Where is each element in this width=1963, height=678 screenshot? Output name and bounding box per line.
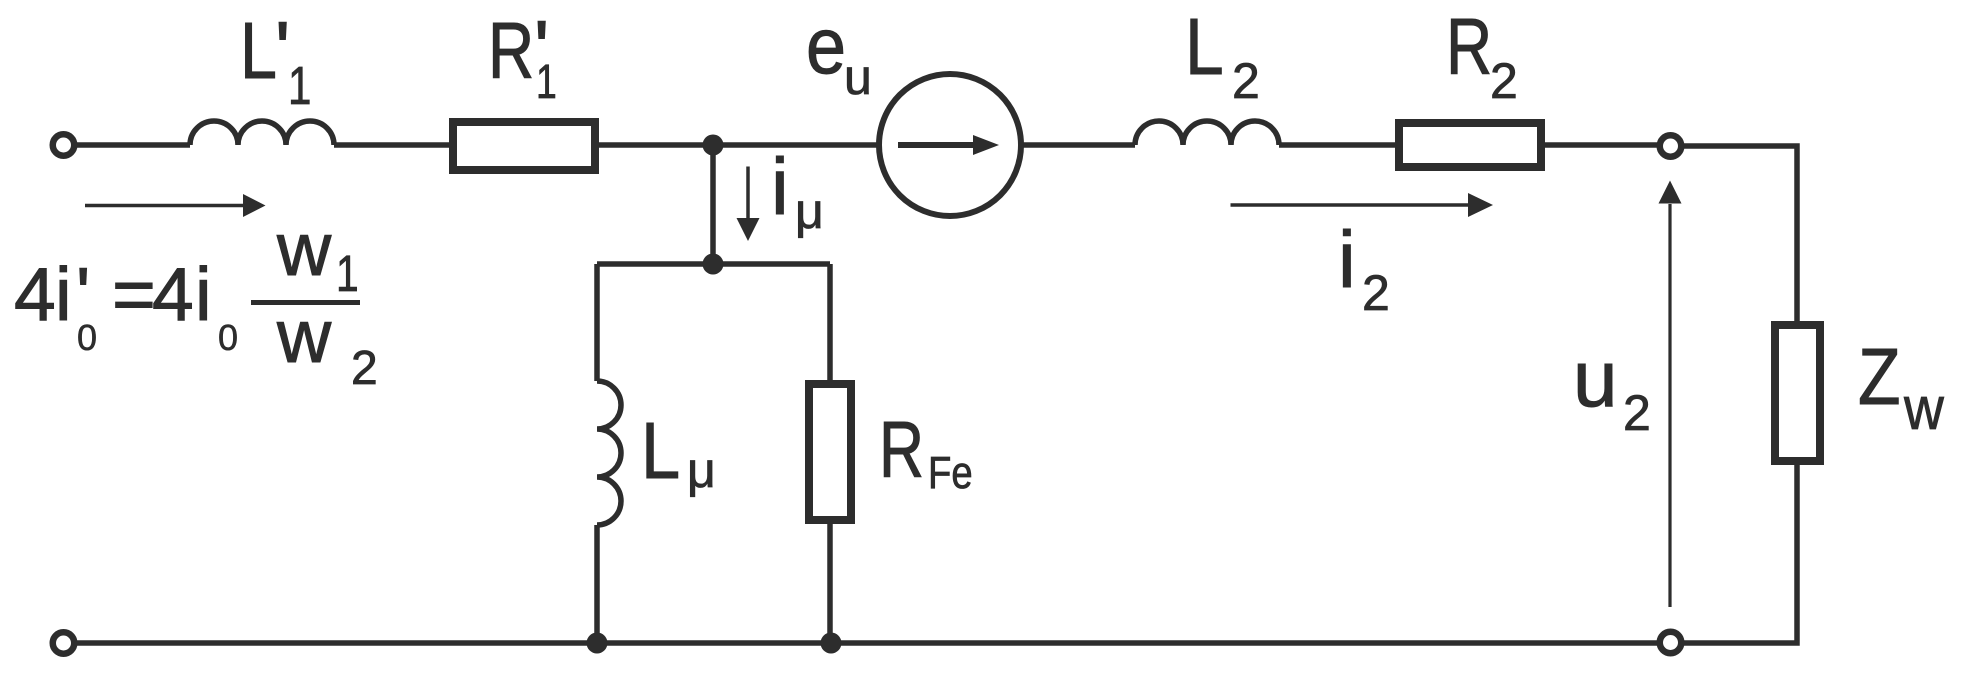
svg-text:e: e [806, 2, 846, 91]
svg-text:1: 1 [536, 56, 557, 110]
svg-text:R: R [879, 406, 924, 495]
svg-text:2: 2 [1623, 385, 1651, 441]
svg-text:L: L [641, 406, 680, 495]
svg-text:i: i [195, 252, 212, 336]
svg-text:1: 1 [336, 245, 359, 302]
svg-text:=: = [112, 252, 156, 336]
svg-text:L: L [240, 5, 277, 95]
svg-text:2: 2 [351, 342, 378, 395]
svg-text:4: 4 [152, 252, 194, 336]
svg-text:4: 4 [14, 252, 56, 336]
svg-text:u: u [1573, 334, 1618, 423]
svg-text:i: i [1338, 215, 1356, 304]
svg-text:2: 2 [1362, 265, 1390, 321]
svg-text:w: w [276, 294, 332, 378]
svg-text:μ: μ [795, 183, 824, 239]
svg-text:R: R [488, 6, 534, 95]
svg-text:u: u [844, 49, 872, 105]
svg-text:w: w [1903, 376, 1944, 443]
svg-text:2: 2 [1232, 53, 1260, 109]
svg-text:Fe: Fe [928, 447, 973, 498]
svg-text:R: R [1446, 2, 1492, 91]
svg-text:Z: Z [1858, 331, 1901, 421]
svg-text:w: w [276, 207, 332, 291]
svg-text:1: 1 [288, 56, 311, 116]
svg-text:i: i [771, 142, 789, 231]
svg-text:L: L [1185, 1, 1224, 91]
svg-text:0: 0 [77, 317, 97, 358]
svg-text:0: 0 [218, 317, 238, 358]
svg-text:i: i [55, 252, 72, 336]
svg-text:μ: μ [687, 442, 716, 498]
svg-text:2: 2 [1490, 53, 1518, 109]
